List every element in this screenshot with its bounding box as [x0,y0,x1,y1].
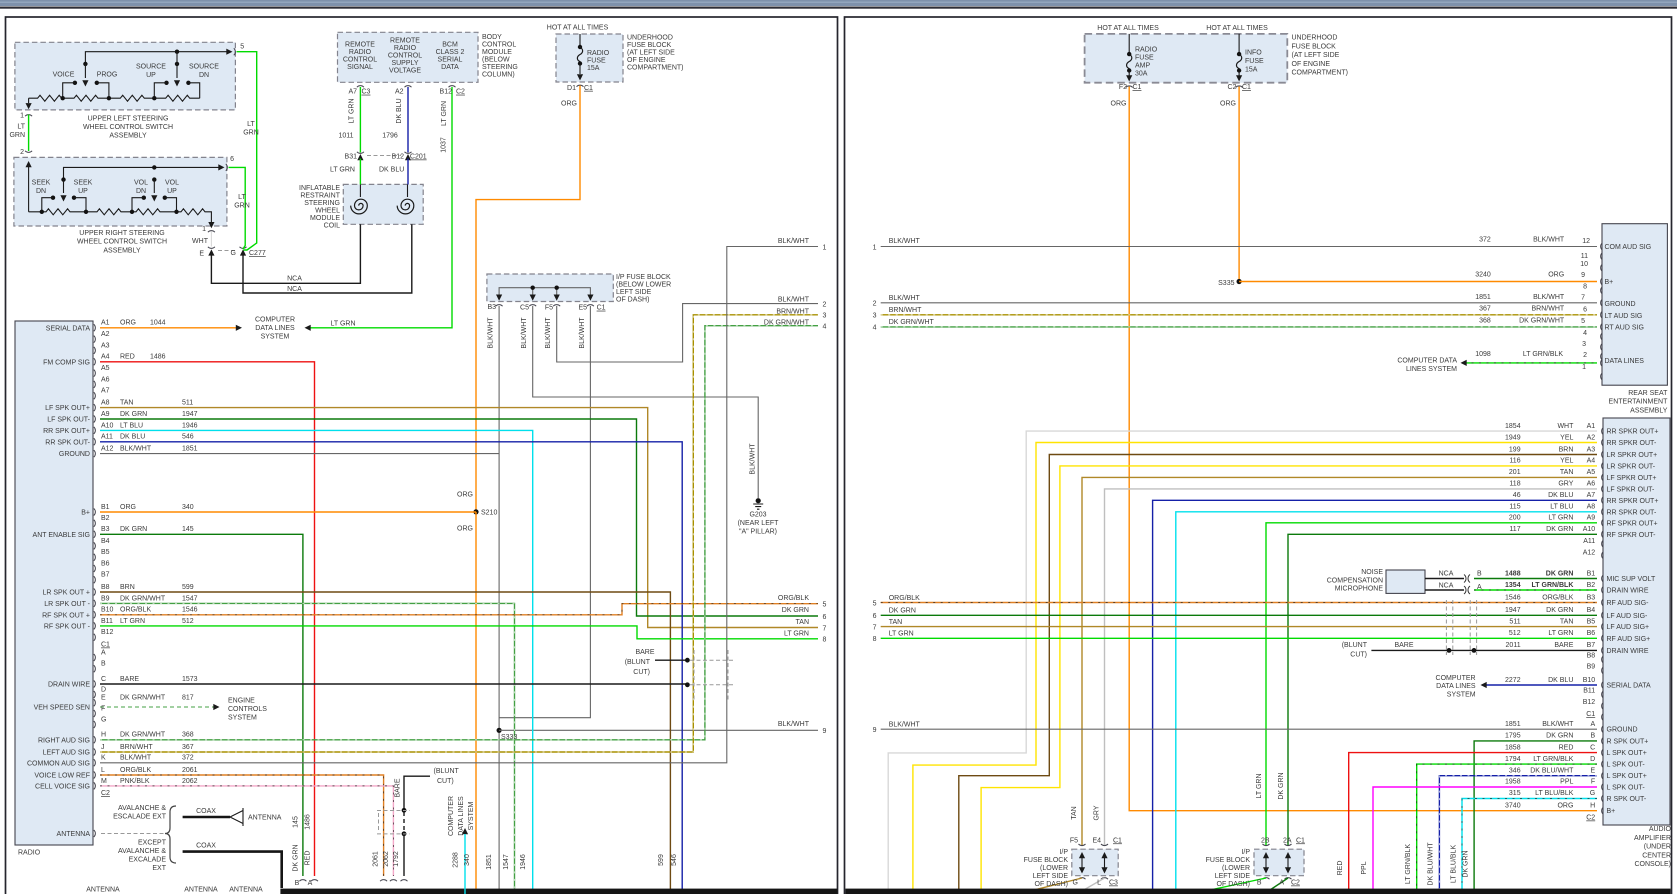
svg-text:372: 372 [1479,237,1491,244]
wire pin1 to pin2 LT GRN [25,115,32,153]
svg-text:(BELOW: (BELOW [482,57,510,64]
svg-text:WHT: WHT [1557,423,1574,430]
svg-text:L: L [101,767,105,774]
svg-text:E: E [199,251,204,258]
engine controls system [228,698,267,722]
svg-text:145: 145 [293,816,300,828]
wire B DK GRN 1795 amp R SPK OUT+ [1474,741,1597,894]
svg-text:ORG/BLK: ORG/BLK [120,607,151,614]
svg-text:FUSE BLOCK: FUSE BLOCK [627,42,672,49]
wire B9 DK GRN/WHT 1547 down to bottom [100,603,515,894]
svg-text:A: A [308,880,313,887]
svg-text:LT GRN: LT GRN [349,98,356,123]
svg-text:A4: A4 [101,354,110,361]
svg-text:BLK/WHT: BLK/WHT [778,297,810,304]
svg-text:ORG: ORG [457,492,473,499]
svg-text:A8: A8 [101,400,110,407]
svg-text:LINES SYSTEM: LINES SYSTEM [1406,366,1457,373]
svg-text:WHT: WHT [192,238,209,245]
svg-text:S210: S210 [481,510,497,517]
box1 voice contact [63,81,77,99]
svg-text:LT GRN: LT GRN [120,618,145,625]
svg-text:DK GRN/WHT: DK GRN/WHT [1519,318,1565,325]
I/P fuse block internal bus (left) [496,286,594,307]
svg-text:1851: 1851 [1475,294,1491,301]
I/P fuse block right 1 labels [1024,805,1122,888]
svg-text:3: 3 [823,313,827,320]
audio amplifier box [1603,418,1670,825]
svg-text:PPL: PPL [1361,861,1368,874]
svg-text:1486: 1486 [305,814,312,830]
svg-text:200: 200 [1509,515,1521,522]
coil box label [299,185,341,230]
svg-text:1547: 1547 [503,854,510,870]
svg-text:546: 546 [671,854,678,866]
svg-text:1546: 1546 [182,607,198,614]
wire 5 ORG/BLK 1546 to amp B3 [881,602,1597,604]
wire BLK/WHT E5 pin down to S333 [499,306,590,718]
svg-text:3: 3 [1582,341,1586,348]
svg-text:TAN: TAN [1560,618,1573,625]
svg-text:SYSTEM: SYSTEM [261,333,290,340]
svg-text:DK GRN/WHT: DK GRN/WHT [889,319,935,326]
svg-text:RED: RED [305,851,312,866]
svg-text:B: B [295,880,300,887]
svg-text:LT GRN: LT GRN [784,631,809,638]
svg-text:1037: 1037 [441,137,448,153]
svg-text:LEFT AUD SIG: LEFT AUD SIG [43,750,90,757]
svg-text:RR SPK OUT-: RR SPK OUT- [45,439,90,446]
wire A12 BLK/WHT 1851 ground to S333 column [100,453,499,455]
svg-text:G: G [1590,790,1595,797]
svg-text:A11: A11 [101,434,113,441]
svg-text:E5: E5 [578,305,587,312]
svg-text:GRY: GRY [1094,805,1101,820]
svg-text:C: C [101,676,106,683]
svg-text:RADIO: RADIO [349,49,372,56]
svg-text:MODULE: MODULE [482,49,512,56]
wire NCA from E to coil [211,224,360,283]
svg-text:A2: A2 [1587,434,1596,441]
computer data lines (amp serial) [1436,675,1476,698]
svg-text:EXCALADE: EXCALADE [129,857,167,864]
svg-text:BLK/WHT: BLK/WHT [889,722,921,729]
svg-text:AVALANCHE &: AVALANCHE & [118,805,166,812]
svg-text:(BLUNT: (BLUNT [434,768,460,775]
amp pin bumps [1602,428,1604,815]
svg-text:DK GRN: DK GRN [120,411,147,418]
radio amp fuse element [1126,34,1133,88]
svg-text:ORG/BLK: ORG/BLK [1542,595,1573,602]
svg-text:RADIO: RADIO [18,850,41,857]
svg-text:2061: 2061 [373,851,380,867]
svg-text:2061: 2061 [182,767,198,774]
svg-text:DN: DN [199,72,209,79]
wire A4 YEL 116 amp to bottom [981,466,1597,894]
ground G203 [753,498,763,509]
svg-text:1: 1 [823,244,827,251]
svg-text:BLK/WHT: BLK/WHT [889,295,921,302]
svg-text:D: D [101,686,106,693]
underhood fuse block box (right panel) [1085,34,1288,83]
svg-text:DK BLU: DK BLU [120,434,145,441]
svg-text:BLK/WHT: BLK/WHT [1542,721,1574,728]
svg-text:C: C [1590,744,1595,751]
svg-text:LT BLU/BLK: LT BLU/BLK [1451,845,1458,884]
rear seat pin bumps [1601,243,1603,380]
svg-text:9: 9 [1581,272,1585,279]
svg-text:B: B [1257,880,1262,887]
antenna coax lower [183,852,282,888]
svg-text:A3: A3 [1587,446,1596,453]
svg-text:367: 367 [1479,305,1491,312]
svg-text:TAN: TAN [889,619,902,626]
wire B2 LT GRN/BLK 1354 to amp DRAIN WIRE [1474,589,1597,591]
svg-text:8: 8 [1583,284,1587,291]
svg-text:(BLUNT: (BLUNT [625,659,651,666]
svg-text:ESCALADE EXT: ESCALADE EXT [113,814,167,821]
svg-text:LEFT SIDE: LEFT SIDE [1033,873,1069,880]
radio pin bumps column B [94,509,96,641]
svg-text:A11: A11 [1583,538,1595,545]
svg-text:LT GRN/BLK: LT GRN/BLK [1523,351,1564,358]
svg-text:COMPENSATION: COMPENSATION [1327,577,1383,584]
svg-text:ORG/BLK: ORG/BLK [120,767,151,774]
wire 9 BLK/WHT 1851 to amp GROUND pin A [881,728,1597,730]
svg-text:RADIO: RADIO [394,45,417,52]
svg-text:STEERING: STEERING [482,64,518,71]
svg-text:DK GRN/WHT: DK GRN/WHT [120,695,166,702]
svg-text:3740: 3740 [1505,802,1521,809]
svg-text:VOICE LOW REF: VOICE LOW REF [34,773,90,780]
svg-text:CUT): CUT) [633,669,650,676]
svg-text:1851: 1851 [1505,721,1521,728]
wire NCA mic to connector A [1425,586,1470,594]
radio pin bumps column A [94,324,96,457]
svg-text:G: G [101,716,106,723]
svg-text:SEEK: SEEK [74,180,93,187]
I/P fuse block right 1 arrows [1079,844,1109,879]
svg-text:4: 4 [873,325,877,332]
svg-text:A6: A6 [1587,481,1596,488]
svg-text:1947: 1947 [1505,607,1521,614]
wire B7 BARE 2011 blunt cut to amp DRAIN [1371,648,1597,653]
svg-text:BLK/WHT: BLK/WHT [750,443,757,475]
svg-text:LT GRN: LT GRN [1548,630,1573,637]
svg-text:L SPK OUT-: L SPK OUT- [1607,762,1646,769]
svg-text:LEFT SIDE: LEFT SIDE [1215,873,1251,880]
svg-text:TAN: TAN [1071,806,1078,819]
box1 source up contact [154,81,168,99]
wire A1 WHT 1854 amp to bottom [888,431,1597,894]
wire C BARE 1573 drain [100,682,690,687]
rear seat entertainment assembly box [1602,224,1667,386]
svg-text:GROUND: GROUND [1607,727,1638,734]
wire B3 DK GRN 145 down to antenna module pin B [100,534,306,881]
noise compensation microphone labels [1327,569,1384,593]
svg-text:LT: LT [238,194,246,201]
wire DK BLU B12 to coil [407,159,409,185]
svg-text:DATA LINES: DATA LINES [255,325,295,332]
svg-text:CONTROLS: CONTROLS [228,706,267,713]
svg-text:LF SPK OUT+: LF SPK OUT+ [45,405,90,412]
svg-text:BLK/WHT: BLK/WHT [1533,294,1565,301]
amp box label [1634,826,1672,868]
box2 labels [32,121,303,293]
splice S335 [1237,279,1242,284]
svg-text:GROUND: GROUND [1605,301,1636,308]
svg-text:DK GRN: DK GRN [889,608,916,615]
svg-text:RF AUD SIG+: RF AUD SIG+ [1607,636,1651,643]
svg-text:OF DASH): OF DASH) [1217,881,1250,888]
svg-text:DK GRN: DK GRN [1278,772,1285,799]
wire 8 LT GRN 512 to amp B6 [881,637,1597,639]
svg-text:DK BLU: DK BLU [1548,492,1573,499]
wire B1 DK GRN 1488 to amp MIC SUP VOLT [1474,578,1597,580]
bottom rotated color labels (right panel) [1337,842,1470,886]
coil spiral right [397,184,414,214]
svg-text:C277: C277 [249,250,266,257]
svg-text:SERIAL: SERIAL [438,57,463,64]
svg-text:1795: 1795 [1505,733,1521,740]
antenna coax upper [183,808,243,826]
svg-text:B3: B3 [101,526,110,533]
wire E DK GRN/WHT 817 to engine controls [100,704,220,710]
svg-text:COLUMN): COLUMN) [482,72,515,79]
box1 resistor ladder R1-R4 [29,95,200,101]
radio amp fuse labels [1111,47,1158,108]
svg-text:DK GRN: DK GRN [293,844,300,871]
svg-text:RT AUD SIG: RT AUD SIG [1605,324,1644,331]
svg-text:ASSEMBLY: ASSEMBLY [1630,407,1668,414]
svg-text:VOICE: VOICE [53,72,75,79]
svg-text:DN: DN [136,188,146,195]
svg-text:A3: A3 [101,342,110,349]
svg-text:2288: 2288 [453,852,460,868]
computer data lines system (radio A1) [255,316,356,340]
wire A3 BRN 199 amp to bottom [959,455,1597,894]
wire L ORG/BLK 2061 down to bottom connector [100,775,387,881]
svg-text:C1: C1 [584,85,593,92]
svg-text:1851: 1851 [486,854,493,870]
wire LT GRN A7 to B31 [359,87,361,153]
wire B11 LT GRN 512 = wire 8 [100,626,818,639]
svg-text:DATA: DATA [441,64,459,71]
S335 label [1218,280,1234,287]
svg-text:B: B [1591,733,1596,740]
svg-text:8: 8 [873,636,877,643]
svg-text:DK BLU/WHT: DK BLU/WHT [1428,842,1435,886]
svg-text:B12: B12 [440,89,453,96]
svg-text:INFLATABLE: INFLATABLE [299,185,340,192]
svg-text:7: 7 [873,624,877,631]
svg-text:B6: B6 [1587,630,1596,637]
inline connector dashes (bottom left) [377,811,410,834]
svg-text:BLK/WHT: BLK/WHT [120,755,152,762]
wire LT GRN/BLK 1098 rear seat pin 1 to computer data lines [1461,360,1598,366]
wire C RED 1858 amp L SPK OUT+ [1349,753,1597,894]
wire A1 ORG 1044 to computer data lines [100,325,242,331]
svg-text:YEL: YEL [1560,434,1573,441]
svg-text:C1: C1 [1133,84,1142,91]
svg-text:ORG: ORG [1111,101,1127,108]
svg-text:5: 5 [873,600,877,607]
svg-text:11: 11 [1581,253,1588,260]
wire 7 TAN 511 to amp B5 [881,626,1597,628]
svg-text:BODY: BODY [482,34,502,41]
svg-text:1958: 1958 [1505,779,1521,786]
underhood fuse element (left) [577,34,584,87]
svg-text:6: 6 [230,156,234,163]
svg-text:LF SPKR OUT-: LF SPKR OUT- [1607,486,1656,493]
svg-text:G: G [231,250,236,257]
svg-text:B8: B8 [1587,652,1596,659]
svg-text:12: 12 [1582,238,1590,245]
svg-text:COMPUTER DATA: COMPUTER DATA [1397,357,1457,364]
svg-text:B3: B3 [487,304,496,311]
svg-text:BARE: BARE [635,649,654,656]
svg-text:CONSOLE): CONSOLE) [1634,861,1671,868]
svg-text:RR SPKR OUT+: RR SPKR OUT+ [1607,498,1659,505]
svg-text:A5: A5 [1587,469,1596,476]
svg-text:B11: B11 [101,618,113,625]
svg-text:FUSE BLOCK: FUSE BLOCK [1206,857,1251,864]
svg-text:512: 512 [1509,630,1521,637]
svg-text:SYSTEM: SYSTEM [1447,691,1476,698]
svg-text:B1: B1 [1587,570,1596,577]
box1 labels [9,44,244,157]
svg-text:368: 368 [182,732,194,739]
wire A5 TAN 201 amp to I/P fuse F5 [1082,477,1597,846]
svg-text:CLASS 2: CLASS 2 [436,49,465,56]
amp C connector wire labels [1505,721,1596,822]
svg-text:4: 4 [1583,330,1587,337]
svg-text:DK GRN: DK GRN [1463,850,1470,877]
svg-text:BLK/WHT: BLK/WHT [488,317,495,349]
wire GRY from L pin to bottom [1082,878,1105,891]
svg-text:B2: B2 [101,515,110,522]
box2 vol switch blade [151,180,157,202]
svg-text:ORG: ORG [1220,101,1236,108]
svg-text:UP: UP [167,188,177,195]
svg-text:115: 115 [1509,504,1520,511]
svg-text:LEFT SIDE: LEFT SIDE [616,289,652,296]
svg-text:F2: F2 [1119,84,1127,91]
svg-text:4: 4 [823,324,827,331]
svg-text:AMPLIFIER: AMPLIFIER [1634,835,1671,842]
svg-text:FUSE: FUSE [1135,55,1154,62]
svg-text:B+: B+ [81,510,90,517]
svg-text:BLK/WHT: BLK/WHT [521,317,528,349]
svg-text:S335: S335 [1218,280,1234,287]
svg-text:DK GRN: DK GRN [782,607,809,614]
svg-text:J: J [101,744,105,751]
svg-text:B5: B5 [101,549,110,556]
svg-text:DK BLU/WHT: DK BLU/WHT [1530,767,1574,774]
svg-text:C2: C2 [1586,815,1595,822]
svg-text:B+: B+ [1607,808,1616,815]
wire BLK/WHT B3 pin down to S333 and bottom [498,306,500,894]
underhood fuse labels (left) [547,25,684,108]
svg-text:AMP: AMP [1135,63,1151,70]
svg-text:1851: 1851 [182,446,198,453]
svg-text:RR SPK OUT+: RR SPK OUT+ [43,428,90,435]
svg-text:1796: 1796 [382,133,398,140]
svg-text:1946: 1946 [520,854,527,870]
wire NCA from G to coil [243,224,412,293]
svg-text:UP: UP [146,72,156,79]
wire K BLK/WHT 372 = wire 1 [100,247,818,763]
svg-text:ASSEMBLY: ASSEMBLY [109,133,147,140]
svg-text:B8: B8 [101,584,110,591]
radio name [18,850,41,857]
svg-text:RED: RED [1337,861,1344,876]
svg-text:RED: RED [1559,744,1574,751]
box2 seek dn contact [42,196,55,212]
svg-text:NCA: NCA [1439,570,1454,577]
svg-text:LT GRN: LT GRN [889,631,914,638]
svg-text:A12: A12 [1583,549,1596,556]
svg-text:D: D [1590,756,1595,763]
svg-text:LT: LT [17,124,25,131]
svg-text:B1: B1 [101,504,110,511]
thick black bottom bus (right) [845,889,1670,894]
svg-text:BARE: BARE [395,778,402,797]
svg-text:ASSEMBLY: ASSEMBLY [103,247,141,254]
svg-text:R SPK OUT-: R SPK OUT- [1607,796,1647,803]
box2 top bus wire to pin 6 [61,164,227,182]
svg-text:F: F [101,705,105,712]
svg-text:RADIO: RADIO [587,50,610,57]
svg-text:B3: B3 [1587,595,1596,602]
svg-text:B9: B9 [101,595,110,602]
rear seat wire labels [1475,237,1590,372]
computer data lines (rear seat) [1397,357,1457,373]
svg-text:L SPK OUT+: L SPK OUT+ [1607,750,1647,757]
ORG labels at S210 [457,492,497,533]
svg-text:1044: 1044 [150,320,166,327]
svg-text:RR SPKR OUT-: RR SPKR OUT- [1607,440,1657,447]
box1 voice/prog switch blade [82,64,88,87]
svg-text:511: 511 [182,400,193,407]
noise compensation microphone box [1386,570,1425,593]
svg-text:C1: C1 [1296,837,1305,844]
svg-text:546: 546 [182,434,194,441]
wire A10 LT BLU 1946 down to bottom [100,430,533,894]
connector C201 row B31 B12 [357,152,412,160]
svg-text:F5: F5 [1070,837,1078,844]
svg-text:B: B [1477,570,1482,577]
wire A10 DK GRN 117 amp to I/P fuse 2A [1288,534,1597,846]
svg-text:LT AUD SIG: LT AUD SIG [1605,313,1643,320]
I/P fuse block right 1 box [1072,849,1118,876]
svg-text:B5: B5 [1587,618,1596,625]
svg-text:SERIAL DATA: SERIAL DATA [1607,683,1652,690]
underhood fuse block box (left panel) [556,34,623,82]
svg-text:7: 7 [1581,294,1585,301]
svg-text:UPPER LEFT STEERING: UPPER LEFT STEERING [88,115,169,122]
svg-text:LR SPK OUT +: LR SPK OUT + [42,590,90,597]
svg-text:SERIAL DATA: SERIAL DATA [46,325,91,332]
svg-text:AVALANCHE &: AVALANCHE & [118,848,166,855]
wire DK BLU A2 to B12 [407,87,409,153]
svg-text:BLK/WHT: BLK/WHT [778,238,810,245]
svg-text:DK BLU: DK BLU [1548,677,1573,684]
svg-text:C2: C2 [101,790,110,797]
svg-text:FM COMP SIG: FM COMP SIG [43,359,90,366]
radio pin row labels A column [101,320,198,453]
svg-text:NOISE: NOISE [1361,569,1383,576]
